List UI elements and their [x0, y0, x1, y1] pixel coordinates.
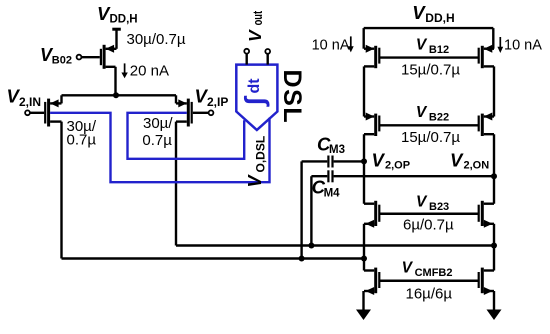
svg-text:M3: M3 — [329, 144, 345, 156]
svg-text:10 nA: 10 nA — [504, 37, 542, 53]
svg-text:V: V — [450, 150, 464, 171]
svg-text:15µ/0.7µ: 15µ/0.7µ — [401, 129, 460, 146]
svg-text:dt: dt — [246, 78, 263, 94]
svg-text:DSL: DSL — [278, 70, 306, 125]
svg-text:30µ/0.7µ: 30µ/0.7µ — [127, 31, 186, 48]
svg-text:2,ON: 2,ON — [464, 160, 490, 172]
svg-text:6µ/0.7µ: 6µ/0.7µ — [403, 216, 454, 233]
svg-text:CMFB2: CMFB2 — [415, 267, 453, 279]
svg-text:V: V — [416, 104, 428, 121]
svg-text:V: V — [245, 29, 265, 42]
svg-text:16µ/6µ: 16µ/6µ — [406, 285, 453, 302]
svg-text:V: V — [372, 150, 386, 171]
svg-text:out: out — [251, 10, 265, 25]
svg-text:0.7µ: 0.7µ — [67, 132, 97, 149]
svg-text:M4: M4 — [324, 188, 341, 200]
svg-text:15µ/0.7µ: 15µ/0.7µ — [401, 61, 460, 78]
svg-text:V: V — [245, 174, 265, 188]
svg-text:V: V — [402, 260, 414, 277]
svg-text:DD,H: DD,H — [110, 13, 138, 25]
svg-text:10 nA: 10 nA — [312, 37, 350, 53]
svg-text:V: V — [416, 36, 428, 53]
svg-text:2,IP: 2,IP — [207, 95, 228, 109]
svg-text:O,DSL: O,DSL — [253, 136, 267, 173]
svg-text:B23: B23 — [429, 201, 449, 213]
svg-text:B02: B02 — [52, 55, 72, 67]
svg-text:B22: B22 — [429, 112, 449, 124]
svg-text:B12: B12 — [429, 44, 449, 56]
svg-text:V: V — [412, 2, 426, 23]
svg-text:DD,H: DD,H — [425, 11, 454, 25]
svg-text:2,OP: 2,OP — [385, 160, 410, 172]
svg-text:V: V — [416, 193, 428, 210]
svg-text:2,IN: 2,IN — [19, 95, 41, 109]
svg-text:30µ/: 30µ/ — [143, 115, 173, 132]
svg-text:20 nA: 20 nA — [130, 63, 169, 80]
svg-text:0.7µ: 0.7µ — [142, 132, 172, 149]
